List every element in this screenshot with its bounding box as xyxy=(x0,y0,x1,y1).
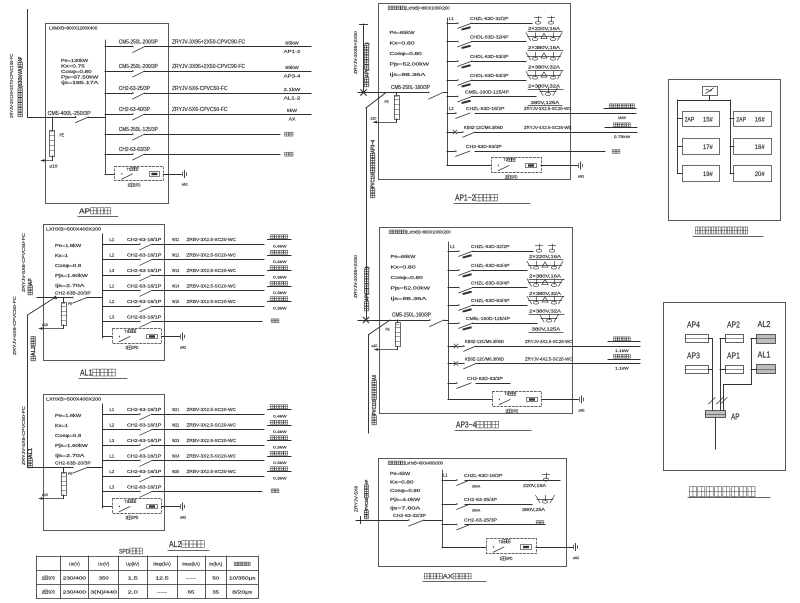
svg-text:CH2-63-25/3P: CH2-63-25/3P xyxy=(119,86,151,92)
SPD surge protector 2级SPD xyxy=(492,158,542,173)
svg-text:ZRBV-3X2.5-SC20-WC: ZRBV-3X2.5-SC20-WC xyxy=(187,299,237,304)
socket outlet 380V,25A xyxy=(537,499,553,501)
svg-text:CH2-63-16/1P: CH2-63-16/1P xyxy=(127,299,161,304)
wire spare branch xyxy=(152,321,262,323)
svg-text:KB0Z-12C/M6.3/06D: KB0Z-12C/M6.3/06D xyxy=(465,339,504,344)
svg-text:W14: W14 xyxy=(172,284,180,289)
svg-text:L2: L2 xyxy=(110,469,115,474)
load 1.1kW 轴流风机 xyxy=(608,341,640,343)
svg-text:PVC110: PVC110 xyxy=(371,172,377,188)
panel box AL2 xyxy=(757,335,776,344)
wire W13 cable ZRBV-3X2.5-SC20-WC xyxy=(152,275,264,277)
busbar AP1-2 xyxy=(447,18,449,166)
svg-text:CH2-63-16/1P: CH2-63-16/1P xyxy=(127,454,161,459)
svg-text:≤4Ω: ≤4Ω xyxy=(578,175,584,179)
load 0.4kW 仓内照明 xyxy=(268,255,292,257)
svg-text:SPD: SPD xyxy=(132,345,139,350)
svg-text:AX: AX xyxy=(443,574,454,581)
SPD surge protector 2级SPD xyxy=(113,499,162,514)
load 0.3kW 仓外照明 xyxy=(268,456,292,458)
svg-text:350: 350 xyxy=(99,576,110,581)
PE bar AL1 xyxy=(62,303,67,326)
breaker CM5-250L-200/3P branch to AP3-4 xyxy=(105,71,132,73)
wire to socket outlets 380V,125A xyxy=(473,323,538,325)
svg-text:LxHxB=600x400x300: LxHxB=600x400x300 xyxy=(405,461,444,466)
svg-text:CH2-63-16/1P: CH2-63-16/1P xyxy=(127,423,161,428)
svg-text:1kW: 1kW xyxy=(618,115,626,120)
svg-text:W11: W11 xyxy=(172,237,180,242)
svg-text:CH2-63D-63/3P: CH2-63D-63/3P xyxy=(467,376,503,382)
svg-text:CM5-250L-160/3P: CM5-250L-160/3P xyxy=(392,312,432,318)
svg-text:ZRBV-3X2.5-SC20-WC: ZRBV-3X2.5-SC20-WC xyxy=(187,407,237,412)
svg-text:Pjs=97.50kW: Pjs=97.50kW xyxy=(61,75,99,80)
svg-text:0.3kW: 0.3kW xyxy=(273,305,287,310)
svg-text:380V,25A: 380V,25A xyxy=(522,507,545,512)
breaker CHZL-63D-63/4P xyxy=(448,270,458,272)
wire spare branch xyxy=(475,151,605,153)
ground symbol xyxy=(182,172,184,176)
breaker CH2-63D-63/3P xyxy=(448,383,456,385)
svg-text:2×220V,16A: 2×220V,16A xyxy=(528,26,560,31)
svg-text:Pe=65kW: Pe=65kW xyxy=(390,30,416,35)
svg-text:SPD: SPD xyxy=(134,183,141,188)
socket outlet group 2×380V,32A xyxy=(528,75,561,77)
PE bar AP3-4 xyxy=(396,323,401,347)
cable note ZRYJV-5X6 xyxy=(354,485,359,512)
svg-text:T2: T2 xyxy=(499,539,503,544)
cable note ZRYJV5X6CPVC50FC xyxy=(21,406,26,465)
panel box AL1 xyxy=(757,365,776,374)
svg-text:380V,125A: 380V,125A xyxy=(532,327,561,332)
svg-text:2.1kW: 2.1kW xyxy=(284,87,301,93)
feeder note 引自AP沿桥架敷设 xyxy=(365,266,371,311)
svg-text:65: 65 xyxy=(188,590,195,595)
svg-text:ZRYJV-5X6-CPVC50-FC: ZRYJV-5X6-CPVC50-FC xyxy=(21,406,26,465)
wire to socket outlets 2×380V,32A xyxy=(473,305,528,307)
svg-text:CHZL-63D-16/2P: CHZL-63D-16/2P xyxy=(466,106,504,112)
title 平房仓配电干线图 xyxy=(689,487,696,497)
wire cable ZRYJV-3X2.5-SC25-WC xyxy=(475,113,636,115)
svg-text:CM5-250L-160/3P: CM5-250L-160/3P xyxy=(391,85,431,91)
wire to socket outlets 380V,125A xyxy=(472,96,537,98)
svg-text:≤4Ω: ≤4Ω xyxy=(182,183,188,187)
grounding lead ≤10 xyxy=(396,119,398,122)
svg-text:220V,16A: 220V,16A xyxy=(523,483,546,488)
svg-text:PE: PE xyxy=(68,471,72,476)
svg-text:CHDL-63D-63/4P: CHDL-63D-63/4P xyxy=(470,54,508,60)
svg-text:CH2-63-25/3P: CH2-63-25/3P xyxy=(464,517,497,523)
wire SPD branch xyxy=(447,165,491,167)
svg-text:Pe=130kW: Pe=130kW xyxy=(61,58,89,63)
feeder note 引自室外箱变(630kVA)至AP xyxy=(18,56,24,117)
svg-text:16#: 16# xyxy=(755,117,765,124)
breaker CM5-250L-200/3P branch to AP1-2 xyxy=(105,46,132,48)
svg-text:ZRYJV-5X6-CPVC50-FC: ZRYJV-5X6-CPVC50-FC xyxy=(21,233,26,292)
svg-text:CHDL-63D-32/4P: CHDL-63D-32/4P xyxy=(470,34,508,40)
svg-text:ZRYJV-3X95+2X50: ZRYJV-3X95+2X50 xyxy=(353,30,358,74)
wire W24 cable ZRBV-3X2.5-SC20-WC xyxy=(152,460,264,462)
svg-text:≤4Ω: ≤4Ω xyxy=(180,345,186,349)
svg-text:L2: L2 xyxy=(110,299,115,304)
svg-text:(LxHxB)=800X1000X200: (LxHxB)=800X1000X200 xyxy=(405,6,450,11)
svg-text:17#: 17# xyxy=(703,144,713,151)
cable note AL2 xyxy=(31,337,37,361)
wire to socket outlets 2×380V,32A xyxy=(473,287,528,289)
svg-text:SPD: SPD xyxy=(48,590,55,595)
svg-text:8/20μs: 8/20μs xyxy=(232,590,253,595)
svg-text:ZRBV-3X2.5-SC20-WC: ZRBV-3X2.5-SC20-WC xyxy=(187,423,237,428)
svg-text:W12: W12 xyxy=(172,253,180,258)
breaker CM5L-160D-125/4P xyxy=(448,323,458,325)
wire W14 cable ZRBV-3X2.5-SC20-WC xyxy=(152,290,264,292)
svg-text:(630kVA): (630kVA) xyxy=(18,66,24,87)
svg-text:Cosφ=0.80: Cosφ=0.80 xyxy=(61,69,92,74)
svg-text:ZRYJV-5X6-CPVC50-FC: ZRYJV-5X6-CPVC50-FC xyxy=(12,296,17,355)
ground symbol xyxy=(579,398,581,402)
wire cable ZRYJV-5X6-CPVC50-FC xyxy=(145,114,311,116)
busbar AL2 xyxy=(102,404,104,508)
svg-text:0.4kW: 0.4kW xyxy=(273,429,287,434)
svg-text:CHZL-63D-63/4P: CHZL-63D-63/4P xyxy=(471,298,509,304)
svg-text:Ijs=7.60A: Ijs=7.60A xyxy=(390,505,420,510)
svg-text:L3: L3 xyxy=(110,315,115,320)
svg-text:ZRYJV-4X2.5-SC25-WE: ZRYJV-4X2.5-SC25-WE xyxy=(524,125,571,131)
grounding lead with resistance ≤10 xyxy=(52,156,54,161)
svg-text:LXMXB=800X1200X400: LXMXB=800X1200X400 xyxy=(49,26,98,31)
svg-text:2×220V,16A: 2×220V,16A xyxy=(529,254,561,259)
svg-text:ZRBV-3X2.5-SC20-WC: ZRBV-3X2.5-SC20-WC xyxy=(187,438,237,443)
incoming feeder riser to AP1-2 xyxy=(363,24,365,93)
busbar AL1 xyxy=(102,234,104,338)
svg-text:50: 50 xyxy=(212,576,219,581)
svg-text:AP(: AP( xyxy=(365,293,371,301)
svg-text:SPD: SPD xyxy=(132,515,139,520)
svg-text:L3: L3 xyxy=(110,485,115,490)
breaker KB0Z-12C/M6.3/06D xyxy=(448,346,456,348)
svg-text:L1: L1 xyxy=(443,473,448,478)
load 0.4kW 仓内照明 xyxy=(268,239,292,241)
svg-text:0.75kW: 0.75kW xyxy=(614,134,630,139)
breaker KB0Z-12C/M6.3/06D xyxy=(448,363,456,365)
svg-text:CH2-63-40/3P: CH2-63-40/3P xyxy=(119,107,151,113)
svg-text:L1: L1 xyxy=(110,454,115,459)
svg-text:AL2: AL2 xyxy=(169,540,182,549)
load 0.3kW 仓外照明 xyxy=(268,301,292,303)
SPD surge protector 1级SPD xyxy=(487,539,537,554)
svg-text:W23: W23 xyxy=(172,438,180,443)
svg-text:Pe=65kW: Pe=65kW xyxy=(391,254,417,259)
wire spare branch xyxy=(465,524,545,526)
svg-text:0.4kW: 0.4kW xyxy=(273,259,287,264)
socket outlet group 2×380V,16A xyxy=(528,36,561,38)
breaker CHZL-63D-63/4P xyxy=(448,287,458,289)
trunk wire AL2/AL1 riser xyxy=(751,338,756,340)
svg-text:0.4kW: 0.4kW xyxy=(273,243,287,248)
wire SPD branch AL2 xyxy=(103,506,113,508)
svg-text:20#: 20# xyxy=(755,171,765,178)
link wire AP1-2 down to AP3-4 xyxy=(366,93,386,109)
svg-text:Ijs=98.36A: Ijs=98.36A xyxy=(390,72,427,77)
svg-text:CM5-400L-250/3P: CM5-400L-250/3P xyxy=(48,111,92,117)
panel box AP3 xyxy=(686,366,709,374)
svg-text:≤4Ω: ≤4Ω xyxy=(180,515,186,519)
svg-text:(LxHxB)=800X1000X200: (LxHxB)=800X1000X200 xyxy=(406,230,451,235)
svg-text:19#: 19# xyxy=(703,171,713,178)
svg-text:ZRYJV-3X120+2X70-CPVC100-FC: ZRYJV-3X120+2X70-CPVC100-FC xyxy=(9,54,14,118)
svg-text:Kx=1: Kx=1 xyxy=(55,423,69,428)
svg-text:ZRYJV-3X95+2X50: ZRYJV-3X95+2X50 xyxy=(353,254,358,298)
svg-text:AL2: AL2 xyxy=(31,346,37,356)
cable note ZRYJV-3X95+2X50 xyxy=(353,254,358,298)
distribution box 19# xyxy=(683,166,720,182)
breaker CH2-63-63/3P branch to 备用 xyxy=(105,154,132,156)
svg-text:Kx=0.80: Kx=0.80 xyxy=(391,265,417,270)
svg-text:CHZL-63D-32/2P: CHZL-63D-32/2P xyxy=(471,244,509,250)
load 0.3kW 仓内照明 xyxy=(268,440,292,442)
svg-text:PVC50: PVC50 xyxy=(364,498,369,510)
wire left riser xyxy=(677,100,679,174)
svg-text:≤10: ≤10 xyxy=(42,493,48,497)
ground symbol xyxy=(578,164,580,168)
svg-text:35: 35 xyxy=(212,590,219,595)
svg-text:Kx=0.80: Kx=0.80 xyxy=(390,480,414,485)
panel box AP2 xyxy=(726,335,744,343)
grounding lead ≤10 xyxy=(397,347,399,350)
svg-text:ZRBV-3X2.5-SC20-WC: ZRBV-3X2.5-SC20-WC xyxy=(187,454,237,459)
svg-text:12.5: 12.5 xyxy=(155,576,169,581)
socket outlet 220V,16A xyxy=(546,473,548,479)
svg-text:ZRYJV-3X95+2X50-CPVC90-FC: ZRYJV-3X95+2X50-CPVC90-FC xyxy=(172,40,245,46)
panel box AP1 xyxy=(726,366,744,374)
cable note AP xyxy=(28,278,34,295)
svg-text:ZRBV-3X2.5-SC20-WC: ZRBV-3X2.5-SC20-WC xyxy=(187,237,237,242)
svg-text:AP3~4: AP3~4 xyxy=(456,421,477,430)
busbar AP xyxy=(105,40,107,174)
svg-text:SPD: SPD xyxy=(511,174,518,179)
svg-text:0.3kW: 0.3kW xyxy=(273,444,287,449)
svg-text:1.1kW: 1.1kW xyxy=(615,348,629,353)
wire to socket outlets 2×380V,32A xyxy=(472,61,527,63)
svg-text:AP1-2: AP1-2 xyxy=(284,49,301,55)
svg-text:AL1: AL1 xyxy=(758,350,771,360)
junction tap at AP3-4 main xyxy=(363,317,368,322)
svg-text:5kW: 5kW xyxy=(287,108,298,114)
distribution box 20# xyxy=(734,166,772,182)
SPD surge protector 1级SPD xyxy=(115,167,164,181)
svg-text:ZRYJV-5X6-CPVC50-FC: ZRYJV-5X6-CPVC50-FC xyxy=(172,107,228,113)
panel box AP4 xyxy=(686,335,709,343)
breaker CM5-250L-125/3P branch to 备用 xyxy=(105,134,132,136)
svg-text:30mA: 30mA xyxy=(472,484,481,489)
svg-text:KB0Z-12C/M6.3/06D: KB0Z-12C/M6.3/06D xyxy=(464,125,503,130)
svg-text:T2: T2 xyxy=(505,391,509,396)
svg-text:T2: T2 xyxy=(504,157,508,162)
wire spare branch xyxy=(145,154,280,156)
wire cable ZRYJV-4X2.5-SC25-WC xyxy=(476,363,640,365)
panel box AP main xyxy=(706,411,726,418)
svg-text:2AP: 2AP xyxy=(685,117,695,124)
svg-text:L1: L1 xyxy=(110,237,115,242)
panel AP1-2 enclosure xyxy=(379,4,571,180)
incoming feeder tick xyxy=(360,517,362,524)
svg-text:CH2-63-63/3P: CH2-63-63/3P xyxy=(119,147,151,153)
svg-text:1.5: 1.5 xyxy=(128,576,139,581)
wire main incoming AP3-4 xyxy=(358,320,379,322)
breaker CHDL-63D-63/4P xyxy=(447,61,457,63)
svg-text:Kx=0.75: Kx=0.75 xyxy=(61,64,86,69)
ground symbol xyxy=(180,335,182,339)
svg-text:Up(kV): Up(kV) xyxy=(126,562,140,567)
svg-text:AP: AP xyxy=(79,207,90,216)
svg-text:CH2-63-16/1P: CH2-63-16/1P xyxy=(127,315,161,320)
svg-text:Pjs=4.0kW: Pjs=4.0kW xyxy=(390,497,422,502)
svg-text:AX: AX xyxy=(289,117,297,123)
svg-text:T2: T2 xyxy=(125,499,129,504)
svg-text:0.3kW: 0.3kW xyxy=(273,475,287,480)
svg-text:CH2-63-25/4P: CH2-63-25/4P xyxy=(464,497,497,503)
svg-text:---: --- xyxy=(186,576,197,581)
breaker CH2-63-25/3P branch to AL1-2 xyxy=(105,93,132,95)
svg-text:CH2-63-32/3P: CH2-63-32/3P xyxy=(393,513,426,519)
wire W25 cable ZRBV-3X2.5-SC20-WC xyxy=(152,476,264,478)
svg-text:2×380V,32A: 2×380V,32A xyxy=(529,309,561,314)
svg-text:Pe=5kW: Pe=5kW xyxy=(390,471,411,476)
trunk wire AP2/AP1 riser xyxy=(720,338,726,340)
svg-text:CM5-250L-125/3P: CM5-250L-125/3P xyxy=(119,127,159,133)
svg-text:AP1: AP1 xyxy=(727,351,740,361)
svg-text:2×380V,32A: 2×380V,32A xyxy=(528,65,560,70)
svg-text:W22: W22 xyxy=(172,423,180,428)
svg-text:230/400: 230/400 xyxy=(63,576,87,581)
svg-text:Pe=1.6kW: Pe=1.6kW xyxy=(55,413,81,418)
svg-text:PE: PE xyxy=(386,327,390,332)
wire to socket outlets 2×380V,16A xyxy=(472,41,527,43)
svg-text:≤4Ω: ≤4Ω xyxy=(573,556,579,560)
ground symbol xyxy=(573,545,575,549)
wire W12 cable ZRBV-3X2.5-SC20-WC xyxy=(152,259,264,261)
svg-text:Pjs=52.00kW: Pjs=52.00kW xyxy=(390,62,430,67)
svg-text:CHZL-63D-32/2P: CHZL-63D-32/2P xyxy=(470,16,508,22)
svg-text:LXHXB=500X400X200: LXHXB=500X400X200 xyxy=(46,397,102,402)
svg-text:AP: AP xyxy=(18,56,24,62)
svg-text:L2: L2 xyxy=(449,106,454,111)
svg-text:Ijs=2.70A: Ijs=2.70A xyxy=(55,453,85,458)
incoming feeder wire from transformer xyxy=(27,10,29,118)
socket outlet 380V,125A xyxy=(541,318,557,320)
PE bar AP xyxy=(50,131,55,157)
wire SPD branch AP xyxy=(105,174,114,176)
svg-text:W13: W13 xyxy=(172,268,180,273)
svg-text:65kW: 65kW xyxy=(285,65,299,71)
svg-text:T1: T1 xyxy=(127,166,131,171)
svg-text:CH2-63D-63/3P: CH2-63D-63/3P xyxy=(466,144,502,150)
svg-text:30mA: 30mA xyxy=(472,508,481,513)
socket outlet group 2×380V,32A xyxy=(529,300,562,302)
svg-text:0.4kW: 0.4kW xyxy=(273,413,287,418)
svg-text:CH2-63-16/1P: CH2-63-16/1P xyxy=(127,237,161,242)
svg-text:2AP: 2AP xyxy=(736,117,746,124)
svg-text:2×380V,16A: 2×380V,16A xyxy=(528,45,560,50)
title 平房仓预留配电示意图 xyxy=(695,227,699,234)
load 0.4kW 仓内照明 xyxy=(268,409,292,411)
svg-text:CH2-63-16/1P: CH2-63-16/1P xyxy=(127,284,161,289)
wire W15 cable ZRBV-3X2.5-SC20-WC xyxy=(152,306,264,308)
svg-text:AL1: AL1 xyxy=(28,448,34,458)
wire right riser xyxy=(730,100,732,174)
svg-text:2×380V,16A: 2×380V,16A xyxy=(529,274,561,279)
wire spare branch xyxy=(476,383,510,385)
link wire AP3-4 down reserved xyxy=(369,320,390,335)
grounding lead ≤10 xyxy=(63,325,65,329)
svg-text:≤10: ≤10 xyxy=(50,164,59,169)
wire W23 cable ZRBV-3X2.5-SC20-WC xyxy=(152,445,264,447)
svg-text:CH2-63-16/1P: CH2-63-16/1P xyxy=(127,438,161,443)
svg-text:≤10: ≤10 xyxy=(371,117,377,121)
svg-text:Pjs=1.60kW: Pjs=1.60kW xyxy=(55,273,88,278)
breaker CH2-63D-63/3P xyxy=(447,151,455,153)
diagram 平房仓预留配电示意图 frame xyxy=(669,80,781,221)
svg-text:CH2-63B-20/3P: CH2-63B-20/3P xyxy=(55,290,91,296)
breaker CHDL-63D-32/4P xyxy=(447,41,457,43)
breaker CH2-63-40/3P branch to AX xyxy=(105,114,132,116)
svg-text:ZRYJV-5X6-CPVC50-FC: ZRYJV-5X6-CPVC50-FC xyxy=(172,86,228,92)
svg-text:Pe=1.6kW: Pe=1.6kW xyxy=(55,243,81,248)
socket outlets 2×220V,16A xyxy=(539,244,541,250)
svg-text:3(N)/440: 3(N)/440 xyxy=(90,590,117,595)
svg-text:Iimp(kA): Iimp(kA) xyxy=(153,562,171,567)
svg-text:L1: L1 xyxy=(110,407,115,412)
svg-text:L1: L1 xyxy=(110,284,115,289)
wire cable ZRYJV-3X95+2X50-CPVC90-FC xyxy=(145,46,311,48)
svg-text:AX: AX xyxy=(372,374,378,380)
wire main incoming AP1-2 xyxy=(358,92,378,94)
svg-text:AP1~2: AP1~2 xyxy=(455,194,475,203)
svg-text:AP: AP xyxy=(364,480,369,485)
socket outlet group 2×380V,32A xyxy=(528,56,561,58)
note 预留PVC110管至AP3-4 xyxy=(371,140,377,198)
svg-text:Cosφ=0.9: Cosφ=0.9 xyxy=(55,433,82,438)
svg-text:CH2-63-16/1P: CH2-63-16/1P xyxy=(127,253,161,258)
svg-text:AL2: AL2 xyxy=(758,319,771,329)
wire spare branch xyxy=(145,134,280,136)
svg-text:LXHXB=500X400X200: LXHXB=500X400X200 xyxy=(46,227,102,232)
panel AP enclosure LXMXB=800X1200X400 xyxy=(46,24,169,204)
feeder note 引自AP沿桥架敷设 xyxy=(365,42,371,87)
breaker CHZL-63D-63/4P xyxy=(448,305,458,307)
svg-text:SPD: SPD xyxy=(48,576,55,581)
wire cable ZRYJV-4X2.5-SC25-WE xyxy=(475,132,637,134)
svg-text:CH2-63B-20/3P: CH2-63B-20/3P xyxy=(55,460,91,466)
svg-text:≤10: ≤10 xyxy=(372,344,378,348)
svg-text:ZRYJV-4X2.5-SC25-WC: ZRYJV-4X2.5-SC25-WC xyxy=(525,339,573,345)
svg-text:0.3kW: 0.3kW xyxy=(273,290,287,295)
svg-text:380V,125A: 380V,125A xyxy=(531,100,560,105)
wire SPD branch AX xyxy=(442,547,486,549)
load 0.75kW 轴流风机 xyxy=(605,127,637,129)
svg-text:Ijs=185.17A: Ijs=185.17A xyxy=(61,80,98,85)
svg-text:1.1kW: 1.1kW xyxy=(615,366,629,371)
svg-text:AL1: AL1 xyxy=(80,369,93,378)
distribution box 16# xyxy=(734,112,772,127)
svg-text:AP: AP xyxy=(731,412,740,422)
svg-text:SPD: SPD xyxy=(512,408,519,413)
svg-text:AP3: AP3 xyxy=(687,351,700,361)
panel AL2 enclosure LXHXB=500X400X200 xyxy=(44,395,165,531)
wire to socket outlets 2×380V,16A xyxy=(473,270,528,272)
note 预留管至抽屉箱AX xyxy=(372,374,378,424)
panel AP3-4 enclosure xyxy=(380,228,573,414)
SPD surge protector 2级SPD xyxy=(113,329,162,344)
